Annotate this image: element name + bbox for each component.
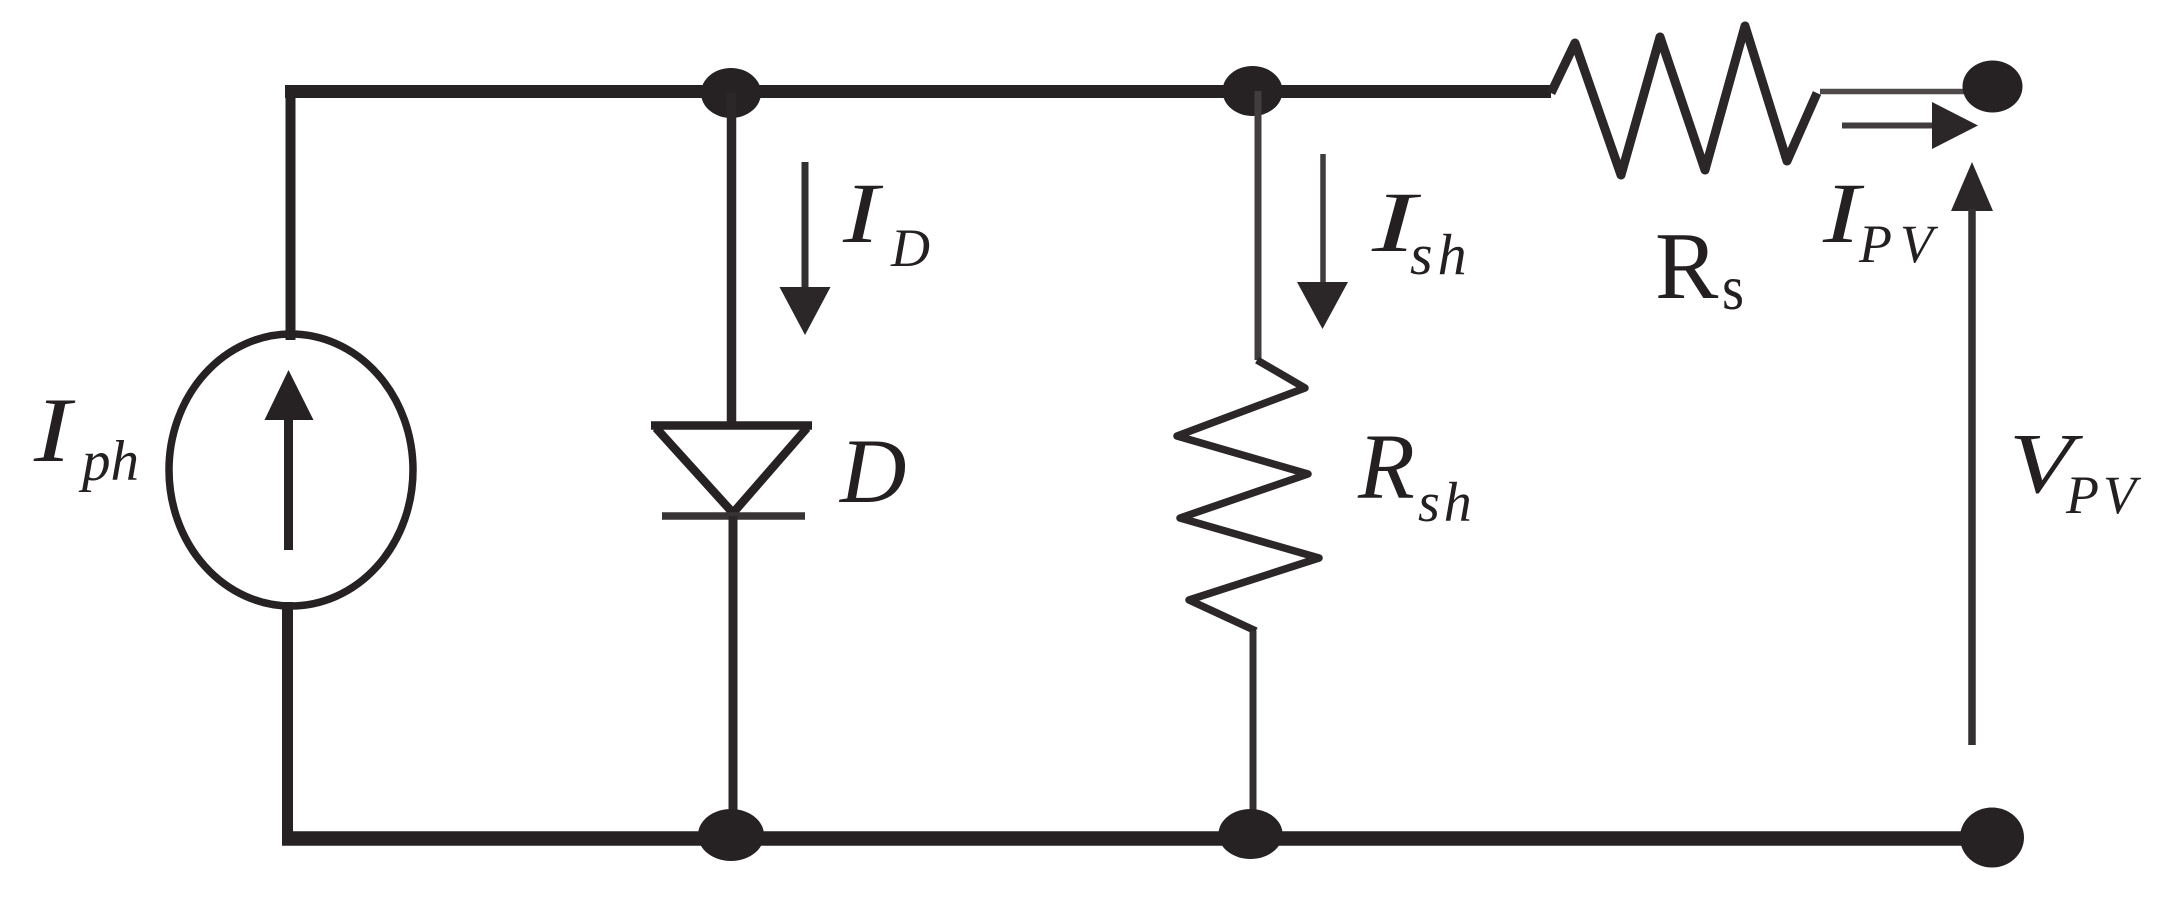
node dot negative terminal — [1960, 808, 2024, 868]
node dot bottom diode — [698, 809, 764, 861]
wire left vertical lower — [282, 602, 293, 838]
wire bottom horizontal — [282, 831, 1992, 846]
arrow I_PV head — [1932, 102, 1978, 149]
wire diode anode — [727, 93, 737, 423]
wire top horizontal — [285, 85, 1551, 98]
current source arrow shaft — [284, 417, 293, 550]
wire diode cathode to bottom — [729, 516, 738, 834]
svg-text:ph: ph — [78, 430, 139, 493]
diode D cathode bar — [662, 512, 805, 520]
svg-text:I: I — [1822, 165, 1865, 261]
svg-text:R: R — [1655, 213, 1719, 319]
arrow I_D head — [780, 287, 831, 335]
arrow I_sh head — [1297, 282, 1348, 329]
svg-text:sh: sh — [1418, 472, 1476, 534]
svg-text:D: D — [838, 420, 906, 522]
resistor R_sh zigzag — [1177, 360, 1319, 631]
svg-text:D: D — [890, 218, 930, 278]
arrow V_PV shaft — [1968, 209, 1976, 745]
wire shunt bottom — [1250, 631, 1257, 835]
svg-text:PV: PV — [2065, 465, 2142, 525]
diode D top bar — [651, 421, 812, 430]
wire to positive terminal — [1820, 89, 1964, 95]
node dot bottom shunt — [1219, 809, 1283, 859]
svg-text:R: R — [1357, 416, 1415, 519]
diode D right side — [733, 428, 807, 513]
svg-text:I: I — [842, 165, 883, 261]
node dot positive terminal — [1963, 61, 2023, 113]
current source I_ph circle — [169, 334, 413, 606]
node dot top diode — [701, 68, 761, 118]
arrow I_PV shaft — [1842, 123, 1935, 129]
node dot top shunt — [1223, 66, 1283, 116]
wire shunt top — [1255, 91, 1262, 360]
svg-text:I: I — [33, 379, 76, 481]
svg-text:sh: sh — [1410, 222, 1472, 287]
wire left vertical upper — [286, 85, 296, 340]
svg-text:s: s — [1722, 252, 1744, 323]
arrow V_PV head — [1951, 162, 1993, 211]
resistor R_s zigzag — [1551, 26, 1817, 175]
current source arrowhead — [265, 370, 314, 420]
arrow I_D shaft — [802, 162, 809, 289]
svg-text:PV: PV — [1858, 214, 1941, 274]
diode D left side — [656, 428, 733, 513]
arrow I_sh shaft — [1320, 154, 1326, 284]
